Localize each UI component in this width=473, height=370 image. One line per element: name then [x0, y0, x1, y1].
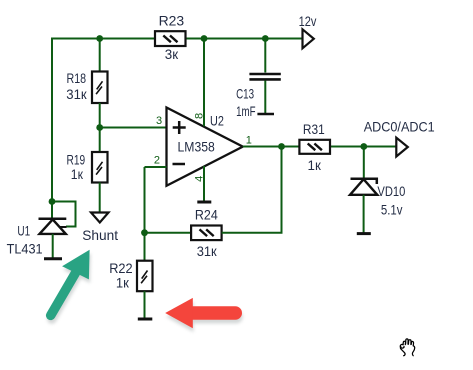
- svg-text:U2: U2: [210, 113, 224, 129]
- svg-text:4: 4: [194, 176, 206, 182]
- resistor R24: [191, 206, 222, 259]
- resistor R22: [109, 260, 152, 291]
- wire pin 3: [100, 127, 167, 129]
- node junction R18/rail: [96, 35, 103, 42]
- svg-text:LM358: LM358: [178, 138, 215, 154]
- ground R22: [138, 318, 153, 321]
- svg-text:1к: 1к: [71, 166, 84, 182]
- op-amp U2: [167, 108, 243, 186]
- node junction TL431/left rail: [49, 198, 56, 205]
- ground C13: [257, 113, 274, 116]
- wire pin 8: [203, 39, 205, 127]
- svg-text:31к: 31к: [197, 243, 218, 259]
- svg-text:R18: R18: [67, 70, 87, 86]
- ground TL431: [44, 257, 62, 260]
- node junction R18/R19/pin3: [96, 124, 103, 131]
- resistor R18: [66, 70, 107, 103]
- wire C13 top lead: [264, 39, 266, 73]
- port Shunt: [82, 213, 118, 243]
- annotation red arrow: [165, 298, 236, 332]
- wire R18 top lead: [99, 39, 101, 72]
- ground op-amp pin 4: [197, 201, 211, 204]
- wire top rail right: [186, 38, 303, 40]
- wire R18 bottom lead: [99, 103, 101, 152]
- svg-text:Shunt: Shunt: [82, 227, 118, 243]
- svg-text:TL431: TL431: [7, 240, 43, 256]
- diode VD10: [350, 179, 406, 218]
- wire pin 4: [203, 166, 205, 201]
- wire TL431 anode lead: [52, 234, 54, 258]
- ground VD10: [357, 232, 371, 235]
- svg-text:12v: 12v: [299, 13, 317, 29]
- annotation green arrow: [51, 250, 91, 319]
- wire R22 bottom lead: [144, 291, 146, 318]
- resistor R19: [67, 152, 108, 183]
- wire R24 right lead / feedback: [222, 147, 282, 233]
- svg-text:VD10: VD10: [377, 183, 405, 199]
- wire pin 2: [145, 166, 167, 168]
- wire left vertical: [51, 38, 53, 202]
- svg-text:3к: 3к: [165, 46, 179, 62]
- port 12v: [299, 13, 317, 48]
- svg-text:ADC0/ADC1: ADC0/ADC1: [364, 118, 435, 134]
- svg-text:5.1v: 5.1v: [381, 202, 403, 218]
- wire TL431 cathode lead: [51, 201, 53, 219]
- wire TL431 ref feedback: [52, 202, 76, 227]
- svg-text:1к: 1к: [116, 274, 130, 290]
- node junction C13/rail: [262, 35, 269, 42]
- wire R24 left lead: [145, 232, 192, 234]
- capacitor C13: [236, 74, 281, 119]
- svg-text:2: 2: [154, 155, 160, 167]
- svg-text:1: 1: [246, 135, 252, 147]
- transistor U1 TL431: [7, 219, 67, 257]
- svg-text:R23: R23: [159, 13, 185, 29]
- node junction pin8/rail: [201, 35, 208, 42]
- wire pin2 to R22/R24 node: [144, 167, 146, 261]
- wire VD10 bottom lead: [363, 195, 365, 233]
- wire VD10 top lead: [363, 147, 365, 179]
- svg-text:8: 8: [194, 113, 206, 119]
- svg-text:C13: C13: [236, 86, 254, 102]
- wire output pin 1: [243, 146, 397, 148]
- svg-text:1mF: 1mF: [236, 103, 255, 119]
- wire C13 bottom lead: [264, 81, 266, 114]
- svg-text:31к: 31к: [66, 86, 87, 102]
- cursor hand icon: [400, 339, 414, 356]
- wire R19 bottom lead: [99, 183, 101, 213]
- svg-text:1к: 1к: [308, 157, 322, 173]
- svg-text:3: 3: [156, 115, 162, 127]
- resistor R23: [155, 13, 186, 62]
- svg-text:R31: R31: [303, 121, 325, 137]
- resistor R31: [299, 121, 330, 173]
- node junction R22/R24/pin2: [141, 229, 148, 236]
- node junction output/VD10: [360, 143, 367, 150]
- svg-text:U1: U1: [17, 222, 30, 238]
- port ADC0/ADC1: [364, 118, 435, 156]
- node junction output/feedback: [278, 143, 285, 150]
- svg-text:R24: R24: [195, 206, 218, 222]
- wire top rail left: [52, 38, 155, 40]
